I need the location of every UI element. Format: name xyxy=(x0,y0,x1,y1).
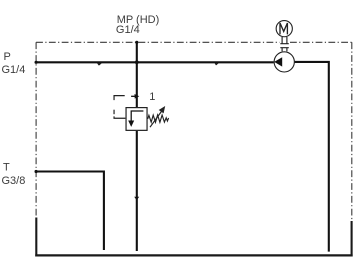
flow arrow on P line (left) xyxy=(97,63,102,65)
tank bottom xyxy=(35,254,352,256)
flow arrow on P line (mid) xyxy=(215,63,219,65)
tank left wall xyxy=(35,218,37,257)
wire pump suction line xyxy=(295,62,329,252)
pump P1 circle xyxy=(274,52,294,72)
svg-text:G1/4: G1/4 xyxy=(116,24,140,36)
enclosure border top (dash-dot) xyxy=(36,41,280,43)
enclosure border left (dash-dot) xyxy=(35,42,37,217)
wire MP vertical line xyxy=(136,42,138,107)
flow arrow on MP line xyxy=(135,94,140,99)
svg-text:G1/4: G1/4 xyxy=(2,64,26,76)
wire P line xyxy=(36,61,274,63)
tank right wall xyxy=(351,221,353,257)
motor letter M xyxy=(280,23,287,34)
enclosure border right (dash-dot) xyxy=(351,42,353,221)
relief valve pilot line (dashed) xyxy=(114,96,125,101)
flow arrow on drain line xyxy=(134,197,139,201)
svg-text:P: P xyxy=(4,51,11,63)
svg-text:T: T xyxy=(3,161,10,173)
relief valve adjustment arrow xyxy=(150,111,162,127)
relief valve spring xyxy=(148,115,169,122)
port dot P xyxy=(35,61,38,64)
svg-text:G3/8: G3/8 xyxy=(2,175,26,187)
relief valve internal arrow xyxy=(131,111,143,121)
svg-text:1: 1 xyxy=(149,91,155,103)
port dot T xyxy=(35,170,38,173)
valve V1 drain line xyxy=(136,131,138,251)
pump triangle xyxy=(274,57,282,66)
motor M1 circle xyxy=(276,21,292,37)
port dot MP xyxy=(135,41,138,44)
relief valve body xyxy=(126,108,147,131)
wire T line xyxy=(36,172,104,251)
junction dot P/MP xyxy=(135,60,139,64)
coupling shaft xyxy=(280,37,289,51)
